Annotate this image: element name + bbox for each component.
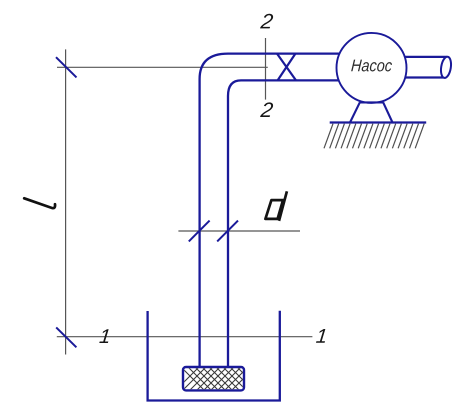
- label: section mark 2 (bottom): [260, 102, 273, 117]
- strainer: crosshatch fill: [172, 358, 264, 394]
- strainer: foot valve body: [183, 367, 244, 390]
- wire: suction pipe outer wall (riser + elbow + top run): [200, 54, 344, 367]
- label: section mark 1 (left): [99, 329, 108, 343]
- label: section mark 2 (top): [260, 14, 273, 29]
- wire: diameter d dimension line: [178, 230, 300, 232]
- pump stand: right leg: [383, 102, 392, 122]
- wire: section line 2-2 (vertical): [265, 38, 267, 100]
- node: outlet pipe open end (ellipse): [440, 56, 453, 79]
- label: section mark 1 (right): [316, 329, 325, 343]
- node: dimension tick top-left: [56, 57, 77, 77]
- wire: outlet pipe bottom wall: [400, 76, 446, 78]
- wire: outlet pipe top wall: [400, 56, 447, 58]
- node: dimension tick bottom-left: [56, 327, 76, 347]
- ground: hatching: [324, 124, 424, 149]
- wire: suction pipe inner wall (riser + elbow + bottom run): [228, 80, 346, 367]
- pump label: Насос: [351, 60, 392, 72]
- wire: section line 1-1 (free surface): [57, 336, 313, 338]
- node: tick on left pipe wall at d: [189, 221, 210, 242]
- pump stand: top connector: [359, 101, 383, 103]
- pump stand: left leg: [350, 102, 360, 122]
- valve X symbol on suction line: [277, 54, 296, 81]
- label: diameter d (custom GOST italic glyph): [265, 191, 287, 221]
- wire: left vertical dimension line l: [65, 49, 67, 354]
- node: tick on right pipe wall at d: [217, 221, 238, 242]
- label: length l (rotated along vertical dimension): [24, 198, 55, 208]
- wire: pipe centerline (horizontal, gray): [57, 66, 268, 68]
- pump U1: circle body: [337, 33, 407, 103]
- tank: open reservoir: [148, 311, 280, 401]
- ground: baseline under pump: [330, 121, 427, 123]
